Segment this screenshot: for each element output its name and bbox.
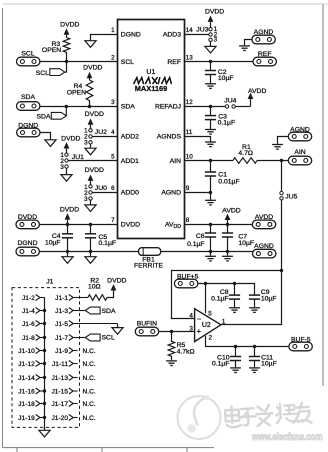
wire DGND upper [40, 133, 51, 140]
wire JU1 to pin5 [69, 160, 118, 162]
svg-text:J1-4: J1-4 [22, 308, 35, 315]
svg-text:12: 12 [186, 99, 194, 106]
node junction C3 [209, 105, 212, 108]
pad DVDD [16, 220, 39, 229]
svg-text:REFADJ: REFADJ [155, 103, 181, 110]
svg-text:J1-16: J1-16 [18, 388, 35, 395]
resistor R5 [168, 332, 175, 361]
svg-text:J1-14: J1-14 [18, 375, 35, 382]
svg-text:2: 2 [111, 54, 115, 61]
wire J1-5 to ground [117, 324, 119, 328]
node junction C2 [209, 60, 212, 63]
capacitor C9 [249, 289, 277, 307]
wire pin12 REFADJ [185, 106, 226, 108]
svg-text:U2: U2 [202, 322, 211, 329]
wire SDA [40, 106, 118, 108]
svg-text:ADD1: ADD1 [121, 158, 139, 165]
node junction SCL [65, 60, 68, 63]
wire DGND bus left [39, 251, 138, 253]
node junction C4 [66, 223, 69, 226]
svg-text:SDA: SDA [21, 94, 35, 101]
wire R1 to AIN pad [257, 160, 289, 162]
ferrite bead FB1 [134, 248, 164, 270]
ground C2 [205, 84, 216, 89]
node junction R5 [170, 330, 173, 333]
svg-text:+: + [197, 327, 202, 336]
svg-text:J1-5: J1-5 [55, 321, 68, 328]
svg-text:0.1µF: 0.1µF [99, 240, 117, 247]
wire pin5 V+ [205, 284, 207, 314]
svg-text:J1-7: J1-7 [55, 335, 68, 342]
ground C10 [230, 368, 241, 373]
svg-text:C1: C1 [218, 171, 227, 178]
svg-text:AGND: AGND [290, 126, 310, 133]
wire pin14 to JU3 [185, 34, 209, 36]
capacitor C6 [187, 225, 216, 252]
node junction C6 [209, 223, 212, 226]
svg-text:ADD0: ADD0 [121, 190, 139, 197]
ground AGND mid [272, 145, 283, 150]
jumper JU2 [84, 111, 107, 148]
J1 left column pins [36, 295, 45, 421]
wire BUFIN to pin3 [159, 331, 195, 333]
svg-text:DGND: DGND [17, 240, 37, 247]
capacitor C1 [205, 161, 240, 193]
svg-text:DVDD: DVDD [85, 111, 104, 118]
node junction SDA tag [65, 105, 68, 108]
ground C7 [227, 252, 229, 256]
ground J1-5 [112, 328, 123, 335]
pad BUF-5 [289, 342, 312, 351]
pad REF [253, 57, 276, 66]
svg-text:J1-13: J1-13 [52, 375, 69, 382]
watermark elecfans logo [178, 395, 221, 439]
net tag SCL [36, 62, 67, 78]
svg-text:3: 3 [214, 37, 218, 44]
svg-text:J1-11: J1-11 [52, 361, 68, 368]
node junction C7 gnd [226, 250, 229, 253]
node junction SDA R4 [88, 105, 91, 108]
wire AGND mid [278, 137, 289, 144]
wire SCL [40, 61, 118, 63]
node junction JU5 [280, 159, 283, 162]
wire feedback loop U2 [172, 271, 282, 319]
capacitor C5 [85, 225, 116, 252]
svg-text:SCL: SCL [36, 70, 49, 77]
net tag SCL J1 [85, 334, 115, 342]
ground AGND top [239, 46, 250, 51]
svg-text:www.elecfans.com: www.elecfans.com [251, 432, 322, 443]
node junction pin5 [204, 282, 207, 285]
svg-text:AGND: AGND [254, 29, 274, 36]
svg-text:AVDD: AVDD [255, 214, 273, 221]
net tag SDA [37, 107, 67, 121]
wire pin10 AIN [185, 160, 234, 162]
svg-text:SCL: SCL [21, 50, 34, 57]
op-amp U2 [189, 309, 226, 342]
wire JU2 to pin4 [92, 136, 117, 138]
resistor R3 [63, 38, 70, 62]
ground R5 [166, 361, 177, 366]
capacitor C11 [249, 347, 277, 368]
op-amp U1 main IC MAX1169 [118, 20, 185, 239]
wire JU4 to AVDD arrow [235, 106, 250, 108]
svg-text:10: 10 [186, 154, 194, 161]
ground JU3 [205, 46, 216, 53]
svg-text:0.1µF: 0.1µF [218, 120, 236, 127]
svg-text:SDA: SDA [121, 103, 135, 110]
wire pin9 AGND [185, 193, 211, 200]
svg-text:J1-20: J1-20 [52, 415, 69, 422]
svg-text:AIN: AIN [170, 158, 181, 165]
svg-text:REF: REF [167, 59, 181, 66]
N.C. labels [83, 348, 96, 422]
ground JU0 [85, 205, 96, 212]
svg-text:1: 1 [111, 27, 115, 34]
capacitor C10 [212, 347, 241, 368]
svg-text:J1-1: J1-1 [55, 295, 68, 302]
ground JU2 [85, 148, 96, 155]
svg-text:JU3: JU3 [196, 27, 208, 34]
svg-text:0.01µF: 0.01µF [218, 178, 239, 185]
svg-text:J1-9: J1-9 [55, 348, 68, 355]
svg-text:DVDD: DVDD [60, 22, 79, 29]
svg-text:DVDD: DVDD [83, 65, 102, 72]
wire pin8 AVDD [185, 224, 253, 226]
ground JU1 [61, 175, 72, 182]
svg-text:4.7Ω: 4.7Ω [238, 150, 253, 157]
jumper JU5 [280, 161, 298, 271]
pin numbers U1 [111, 27, 193, 224]
svg-text:N.C.: N.C. [83, 388, 96, 395]
svg-text:AGND: AGND [161, 190, 181, 197]
jumper JU4 [224, 97, 236, 108]
wire DVDD arrow R4 [89, 74, 91, 80]
svg-text:U1: U1 [146, 69, 155, 76]
wire pin2 V- [206, 336, 291, 347]
svg-text:AVDD: AVDD [248, 88, 266, 95]
pad BUF+5 [174, 279, 197, 288]
wire pin7 DVDD [39, 224, 117, 226]
svg-text:SDA: SDA [102, 308, 116, 315]
svg-text:0.1µF: 0.1µF [211, 295, 229, 302]
svg-text:DVDD: DVDD [85, 167, 104, 174]
pad SCL [17, 57, 40, 66]
resistor R1 [233, 158, 257, 164]
svg-text:AVDD: AVDD [165, 222, 181, 230]
wire pin13 REF [185, 61, 254, 63]
wire BUF+5 [198, 284, 255, 296]
svg-text:4: 4 [189, 313, 193, 320]
svg-text:DVDD: DVDD [205, 9, 224, 16]
node junction C7 [226, 223, 229, 226]
svg-text:13: 13 [186, 54, 194, 61]
svg-text:14: 14 [186, 27, 194, 34]
svg-text:DVDD: DVDD [121, 222, 140, 229]
svg-text:N.C.: N.C. [83, 401, 96, 408]
node junction C1 [209, 159, 212, 162]
connector J1 dashed box [12, 279, 80, 428]
ground C3 [205, 130, 216, 135]
svg-text:ADD3: ADD3 [163, 31, 181, 38]
node junction C11 [253, 345, 256, 348]
svg-text:AGNDS: AGNDS [157, 134, 182, 141]
node DVDD arrow R2 [111, 284, 117, 290]
svg-text:0.1µF: 0.1µF [212, 361, 230, 368]
svg-text:10µF: 10µF [238, 240, 254, 247]
svg-text:2: 2 [209, 334, 213, 341]
svg-text:REF: REF [258, 51, 272, 58]
wire AGND top [245, 40, 252, 46]
svg-text:11: 11 [186, 129, 193, 136]
svg-text:SCL: SCL [102, 335, 115, 342]
svg-text:−: − [197, 314, 202, 323]
node junction C6 gnd [209, 250, 212, 253]
J1 right column pins [69, 295, 118, 421]
node junction C10 [234, 345, 237, 348]
svg-text:3: 3 [84, 140, 88, 147]
svg-text:J1-15: J1-15 [52, 388, 69, 395]
svg-text:10Ω: 10Ω [88, 284, 101, 291]
svg-text:J1-10: J1-10 [18, 348, 35, 355]
pad DGND upper [17, 128, 40, 137]
net tag SDA J1 [85, 307, 116, 315]
node junction C4 gnd [66, 250, 69, 253]
svg-text:J1-17: J1-17 [52, 401, 69, 408]
pad BUFIN [135, 327, 158, 336]
watermark chinese text [225, 402, 311, 427]
svg-text:OPEN: OPEN [42, 47, 61, 54]
wire pin1 DGND [91, 35, 118, 41]
svg-text:3: 3 [60, 164, 64, 171]
svg-text:6: 6 [111, 185, 115, 192]
svg-text:4.7kΩ: 4.7kΩ [177, 348, 195, 355]
svg-text:9: 9 [186, 185, 190, 192]
svg-text:10µF: 10µF [45, 239, 61, 246]
capacitor C2 [205, 62, 234, 84]
svg-text:4: 4 [111, 129, 115, 136]
svg-text:5: 5 [111, 154, 115, 161]
ground C11 [249, 368, 260, 373]
capacitor C3 [205, 107, 235, 129]
node junction C8 [233, 282, 236, 285]
svg-text:C6: C6 [196, 233, 205, 240]
jumper JU0 [84, 167, 107, 205]
svg-text:N.C.: N.C. [83, 348, 96, 355]
resistor R2 [88, 295, 107, 301]
ground C6 [210, 252, 212, 256]
svg-text:J1-3: J1-3 [55, 308, 68, 315]
jumper JU3 [196, 9, 224, 47]
svg-text:AIN: AIN [294, 149, 305, 156]
svg-text:DVDD: DVDD [107, 277, 126, 284]
node junctions J1 bus [43, 309, 46, 312]
pad AVDD [252, 220, 275, 229]
svg-text:SDA: SDA [37, 114, 51, 121]
svg-text:DVDD: DVDD [18, 214, 37, 221]
svg-text:BUF-5: BUF-5 [291, 337, 311, 344]
pad DGND [16, 247, 39, 256]
ground AGNDS [205, 142, 216, 147]
svg-text:7: 7 [111, 217, 115, 224]
svg-text:10µF: 10µF [261, 361, 277, 368]
svg-text:J1-2: J1-2 [22, 295, 35, 302]
wire DVDD arrow R3 [66, 31, 68, 38]
svg-text:1: 1 [222, 318, 226, 325]
wire U2 output to feedback [221, 271, 282, 325]
ground C4 [67, 252, 69, 257]
svg-text:10µF: 10µF [218, 75, 234, 82]
svg-text:0.1µF: 0.1µF [187, 241, 205, 248]
svg-text:DVDD: DVDD [60, 206, 79, 213]
svg-text:JU0: JU0 [95, 185, 107, 192]
wire J1 ground bus [44, 298, 46, 431]
svg-text:J1-12: J1-12 [18, 361, 35, 368]
capacitor C8 [211, 284, 240, 308]
svg-text:BUFIN: BUFIN [137, 320, 157, 327]
svg-text:5: 5 [208, 310, 212, 317]
svg-text:3: 3 [111, 99, 115, 106]
svg-text:AVDD: AVDD [222, 207, 240, 214]
svg-text:J1-18: J1-18 [18, 401, 35, 408]
svg-text:JU4: JU4 [224, 97, 236, 104]
ground C9 [249, 308, 260, 313]
ground pin1 [85, 41, 96, 48]
svg-text:J1-6: J1-6 [22, 321, 35, 328]
resistor R4 [86, 80, 93, 107]
svg-text:DVDD: DVDD [61, 135, 80, 142]
jumper JU1 [60, 135, 84, 174]
node AVDD arrow REFADJ [250, 99, 252, 107]
svg-text:FERRITE: FERRITE [134, 263, 164, 270]
svg-text:N.C.: N.C. [83, 415, 96, 422]
svg-text:JU5: JU5 [285, 193, 297, 200]
svg-text:BUF+5: BUF+5 [177, 273, 199, 280]
svg-text:J1-19: J1-19 [18, 415, 35, 422]
pad AGND top [252, 35, 275, 44]
pad AIN [288, 156, 311, 165]
pad AGND lower right [253, 249, 276, 258]
svg-text:OPEN: OPEN [67, 90, 86, 97]
svg-text:DGND: DGND [121, 31, 141, 38]
svg-text:AGND: AGND [254, 243, 274, 250]
svg-text:ADD2: ADD2 [121, 134, 139, 141]
ground C8 [229, 308, 240, 313]
svg-text:3: 3 [84, 196, 88, 203]
svg-text:J1-8: J1-8 [22, 335, 35, 342]
svg-text:N.C.: N.C. [83, 361, 96, 368]
pad SDA [17, 102, 40, 111]
node junction feedback JU5 [280, 269, 283, 272]
svg-text:J1: J1 [46, 279, 53, 286]
svg-text:N.C.: N.C. [83, 375, 96, 382]
pad AGND mid right [288, 132, 311, 141]
wire FB1 to AGND pad [161, 251, 253, 253]
node junction C5 [89, 223, 92, 226]
ground J1 bus [39, 430, 50, 437]
svg-text:DGND: DGND [18, 122, 38, 129]
watermark background box [214, 386, 328, 452]
wire JU0 to pin6 [92, 192, 117, 194]
svg-text:JU2: JU2 [95, 129, 107, 136]
svg-text:10µF: 10µF [261, 295, 277, 302]
svg-text:SCL: SCL [121, 59, 134, 66]
svg-text:8: 8 [186, 217, 190, 224]
ground DGND upper [45, 140, 56, 147]
node junction C5 gnd [89, 250, 92, 253]
ground pin9 [205, 200, 216, 205]
wire R2 to DVDD arrow [107, 291, 113, 298]
wire pin11 AGNDS [185, 137, 211, 142]
node junction pin9 C1 [209, 191, 212, 194]
capacitor C4 [45, 225, 73, 252]
svg-text:MAX1169: MAX1169 [135, 84, 167, 93]
capacitor C7 [222, 225, 254, 252]
ground C5 [90, 252, 92, 257]
